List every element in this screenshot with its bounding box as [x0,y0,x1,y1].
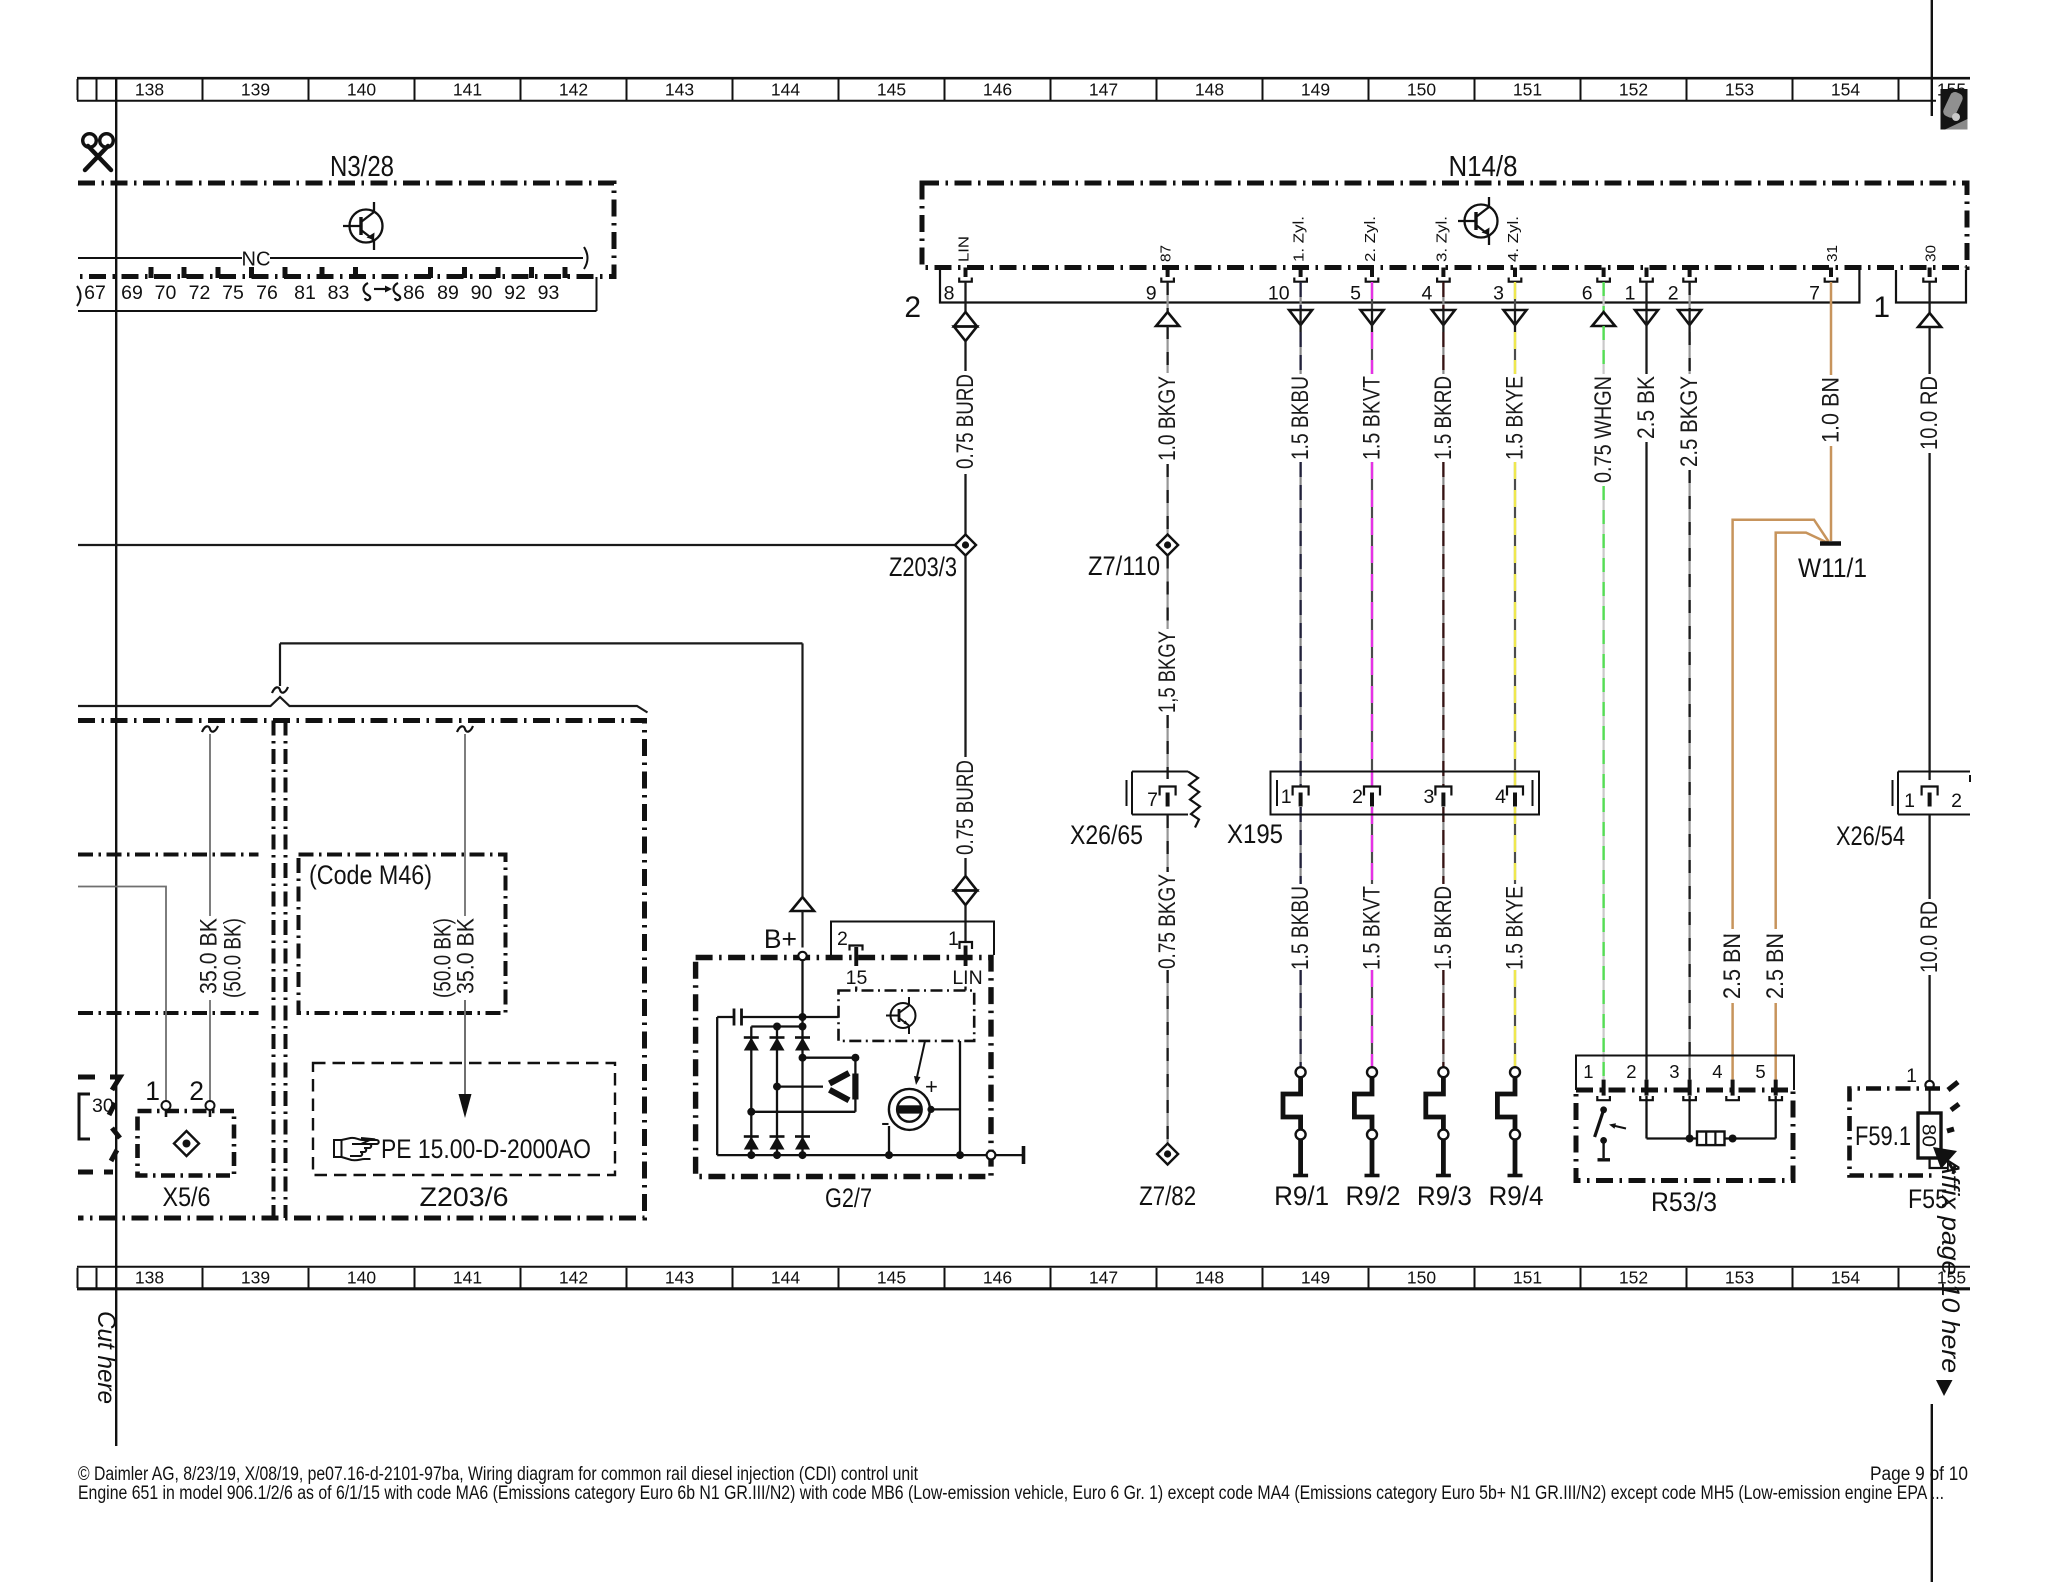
regulator box [839,991,975,1041]
svg-text:139: 139 [241,80,270,100]
wire break squiggle [272,687,288,693]
wire [1514,462,1516,786]
svg-text:147: 147 [1089,80,1118,100]
svg-text:0.75 BURD: 0.75 BURD [952,374,979,469]
transistor in N3/28 [343,202,383,250]
R53/3 pin 2 [1645,1080,1649,1096]
svg-text:30: 30 [1923,245,1940,262]
svg-text:4. Zyl.: 4. Zyl. [1505,216,1522,262]
svg-text:(Code M46): (Code M46) [309,860,432,890]
svg-text:F59.1: F59.1 [1855,1121,1911,1151]
svg-text:(50.0 BK): (50.0 BK) [220,918,247,998]
svg-text:145: 145 [877,1268,906,1288]
LIN wire into regulator [964,987,966,991]
right cut line bottom [1931,1404,1933,1582]
X195 pin 4 [1507,787,1523,796]
svg-text:1.5 BKBU: 1.5 BKBU [1287,886,1314,970]
svg-text:8: 8 [944,283,955,305]
svg-text:1.5 BKRD: 1.5 BKRD [1430,376,1457,460]
svg-text:W11/1: W11/1 [1798,553,1867,583]
arrow down [1504,310,1527,325]
wire 10.0 RD from N14/8 pin 30 [1928,282,1930,315]
svg-text:146: 146 [983,1268,1012,1288]
svg-text:153: 153 [1725,1268,1754,1288]
inner dash-dot box left [78,855,259,1014]
terminal 30 bracket [79,1094,90,1139]
wire B+ drop [801,643,803,896]
N14/8 pin 7 [1829,268,1833,278]
svg-text:141: 141 [453,1268,482,1288]
svg-text:0.75 BKGY: 0.75 BKGY [1154,874,1181,969]
N14/8 pin 1 [1645,268,1649,278]
wire [1371,970,1373,1067]
wire [1299,807,1301,884]
svg-text:1: 1 [1904,790,1915,812]
svg-text:3: 3 [1493,283,1504,305]
svg-text:3: 3 [1424,786,1435,808]
right cut line top [1931,0,1933,116]
svg-text:75: 75 [222,282,244,304]
svg-text:90: 90 [471,282,493,304]
svg-text:2. Zyl.: 2. Zyl. [1362,216,1379,262]
svg-text:1.0 BN: 1.0 BN [1818,377,1845,443]
arrow up on RD wire [1918,313,1941,327]
svg-text:3. Zyl.: 3. Zyl. [1433,216,1450,262]
svg-text:R9/4: R9/4 [1489,1181,1544,1211]
wire [1645,442,1647,1080]
regulator right leg [959,1041,961,1155]
svg-text:146: 146 [983,80,1012,100]
wire [1514,807,1516,884]
wire [1514,332,1516,374]
wire [964,341,966,371]
svg-text:143: 143 [665,80,694,100]
wire 1.5 BKVT from N14/8 [1371,282,1373,310]
N3/28 pin row [78,310,597,312]
svg-text:149: 149 [1301,80,1330,100]
svg-text:86: 86 [403,282,425,304]
connector rail above G2/7 [831,922,994,956]
svg-text:5: 5 [1755,1061,1765,1082]
diode bridge columns [751,1025,802,1027]
wire [964,474,966,535]
svg-text:151: 151 [1513,80,1542,100]
pin 15 [850,946,863,951]
R53/3 pin 5 [1774,1080,1778,1096]
arrow up on BKGY wire [1156,312,1179,326]
top ruler [77,78,1970,101]
wire [1371,462,1373,786]
svg-text:76: 76 [256,282,278,304]
svg-text:5: 5 [1350,283,1361,305]
svg-text:N3/28: N3/28 [330,151,394,183]
svg-text:R9/2: R9/2 [1346,1181,1401,1211]
wire [1442,807,1444,884]
svg-text:3: 3 [1669,1061,1679,1082]
svg-text:149: 149 [1301,1268,1330,1288]
svg-text:150: 150 [1407,80,1436,100]
X26/65 pin 7 [1160,787,1176,796]
svg-text:1.0 BKGY: 1.0 BKGY [1154,376,1181,461]
svg-text:0.75 WHGN: 0.75 WHGN [1590,376,1617,483]
svg-text:R9/3: R9/3 [1417,1181,1472,1211]
transistor in N14/8 [1458,197,1498,245]
X5/6 pins [162,1101,171,1110]
connector X5/6 [138,1111,235,1176]
wire [1928,327,1930,374]
wire [1299,970,1301,1067]
wire [1166,815,1168,872]
B+ wire inside [801,960,803,1027]
wire [1166,970,1168,1144]
shield symbol lower [954,876,977,891]
svg-text:4: 4 [1422,283,1433,305]
wire [1166,464,1168,535]
svg-text:148: 148 [1195,1268,1224,1288]
svg-text:81: 81 [294,282,316,304]
svg-text:0.75 BURD: 0.75 BURD [952,760,979,855]
connector X26/54 [1898,772,1970,815]
node Z7/110 [1157,535,1178,556]
svg-text:1.5 BKVT: 1.5 BKVT [1359,376,1386,460]
wire to G2/7 B+ horizontal [280,642,803,644]
arrow down [1289,310,1312,325]
svg-text:10.0 RD: 10.0 RD [1916,901,1943,973]
svg-text:LIN: LIN [956,236,973,262]
rotor connections [888,1126,890,1155]
N14/8 pin 8 [964,268,968,278]
svg-text:10: 10 [1268,283,1290,305]
wire [1166,715,1168,779]
svg-text:Cut here: Cut here [92,1311,120,1404]
svg-text:2.5 BN: 2.5 BN [1719,933,1746,999]
svg-text:6: 6 [1582,283,1593,305]
svg-text:147: 147 [1089,1268,1118,1288]
arrow up on B+ wire [791,897,814,911]
svg-text:1: 1 [1625,283,1636,305]
svg-text:R53/3: R53/3 [1651,1187,1717,1217]
wires 2.5 BN from R53/3 pins 4,5 to ground [1733,520,1829,1080]
R53/3 pin 3 [1688,1080,1692,1096]
svg-text:Z203/3: Z203/3 [889,552,957,582]
svg-text:1.5 BKBU: 1.5 BKBU [1287,376,1314,460]
svg-text:145: 145 [877,80,906,100]
svg-text:1.5 BKVT: 1.5 BKVT [1359,886,1386,970]
arrow down [1361,310,1384,325]
svg-text:R9/1: R9/1 [1274,1181,1329,1211]
double separator lines [274,721,286,1219]
wire 1.5 BKBU from N14/8 [1299,282,1301,310]
svg-text:1: 1 [1906,1065,1917,1087]
svg-text:NC: NC [242,249,271,271]
bus bracket 1 [1896,270,1966,303]
arrow up on WHGN [1592,312,1615,326]
bus bracket 2 [940,270,1859,303]
svg-text:67: 67 [84,282,106,304]
svg-text:142: 142 [559,80,588,100]
wire [1514,970,1516,1067]
wire [1928,975,1930,1081]
15 wire into regulator [855,987,857,991]
wire [1166,326,1168,373]
svg-text:7: 7 [1809,283,1820,305]
svg-text:1.5 BKRD: 1.5 BKRD [1430,886,1457,970]
wire [1299,462,1301,786]
alternator G2/7 box [696,958,991,1177]
wire [1442,970,1444,1067]
svg-text:70: 70 [155,282,177,304]
svg-text:N14/8: N14/8 [1449,151,1518,183]
svg-text:15: 15 [846,967,868,989]
svg-text:1: 1 [948,928,959,950]
svg-text:1.5 BKYE: 1.5 BKYE [1502,886,1529,970]
wire [1602,326,1604,374]
node Z203/3 [78,544,955,546]
svg-text:Engine 651 in model 906.1/2/6: Engine 651 in model 906.1/2/6 as of 6/1/… [78,1483,1944,1504]
svg-text:1: 1 [1583,1061,1593,1082]
svg-text:152: 152 [1619,1268,1648,1288]
N14/8 pin 9 [1166,268,1170,278]
X195 pin 2 [1364,787,1380,796]
squiggle [457,726,473,732]
svg-text:2: 2 [1668,283,1679,305]
svg-text:2: 2 [189,1076,204,1106]
connector X195 [1271,772,1540,815]
svg-text:2: 2 [1951,790,1962,812]
LIN pin bracket [960,942,973,949]
svg-text:152: 152 [1619,80,1648,100]
svg-text:1: 1 [145,1076,160,1106]
N14/8 pin 5 [1370,268,1374,278]
svg-text:1: 1 [1873,291,1890,324]
arrow down [1432,310,1455,325]
svg-text:9: 9 [1146,283,1157,305]
NC wire [78,257,242,259]
node Z7/82 [1157,1144,1178,1165]
ground W11/1 [1820,541,1841,546]
svg-text:1.5 BKYE: 1.5 BKYE [1502,376,1529,460]
svg-text:Page 9 of 10: Page 9 of 10 [1870,1464,1968,1485]
wire [1688,470,1690,1080]
wire [1602,486,1604,1080]
wire [1830,446,1833,541]
R53/3 internal wires [1645,1096,1647,1139]
wire to X5/6 pin 1 [78,887,166,1102]
capacitor [717,1016,734,1018]
arrow down [1635,310,1658,325]
black photo icon top right [1941,89,1968,130]
svg-text:35.0 BK: 35.0 BK [196,918,223,994]
svg-text:Z7/82: Z7/82 [1139,1181,1196,1211]
svg-text:150: 150 [1407,1268,1436,1288]
svg-text:X26/65: X26/65 [1070,820,1143,850]
svg-text:139: 139 [241,1268,270,1288]
svg-text:83: 83 [328,282,350,304]
glow plug R9/3 [1438,1067,1448,1077]
B+ entry circle [798,952,806,960]
wire [964,858,966,875]
svg-text:140: 140 [347,1268,376,1288]
wire [1442,462,1444,786]
affix arrowhead [1933,1147,1957,1169]
switch actuation arrow [1613,1126,1626,1129]
svg-text:72: 72 [189,282,211,304]
wire 0.75 BURD from N14/8 pin 8 [964,282,966,312]
wire [1371,807,1373,884]
svg-text:141: 141 [453,80,482,100]
svg-text:7: 7 [1147,789,1158,811]
relay R53/3 [1576,1056,1794,1091]
N14/8 pin 30 [1928,268,1932,278]
svg-text:69: 69 [121,282,143,304]
N14/8 pin 2 [1688,268,1692,278]
svg-text:143: 143 [665,1268,694,1288]
svg-text:31: 31 [1824,245,1841,262]
torn edge marks [1947,1082,1959,1131]
wire 1.5 BKYE from N14/8 [1514,282,1516,310]
(Code M46) box [299,855,506,1014]
svg-text:2: 2 [904,291,921,324]
svg-text:142: 142 [559,1268,588,1288]
svg-text:2.5 BKGY: 2.5 BKGY [1676,376,1703,467]
shield symbol on BURD wire [954,312,977,327]
svg-text:144: 144 [771,80,800,100]
arrow from regulator to rotor + [917,1041,925,1077]
N14/8 pin 10 [1299,268,1303,278]
svg-text:+: + [925,1074,938,1099]
N14/8 pin 3 [1513,268,1517,278]
svg-text:93: 93 [538,282,560,304]
svg-text:G2/7: G2/7 [825,1183,872,1213]
rotor [889,1089,930,1130]
left page frame line [115,77,117,1446]
svg-text:151: 151 [1513,1268,1542,1288]
Z203/6 box [313,1063,615,1175]
connector X26/65 [1132,772,1188,815]
svg-text:LIN: LIN [952,967,982,989]
R53/3 switch [1600,1106,1607,1113]
glow plug R9/1 [1296,1067,1306,1077]
svg-text:10.0 RD: 10.0 RD [1916,376,1943,450]
N14/8 pin 4 [1441,268,1445,278]
wire [1166,556,1168,630]
svg-text:B+: B+ [764,924,797,954]
ground bus [717,1154,986,1156]
wire [1928,815,1930,899]
svg-text:138: 138 [135,80,164,100]
svg-text:4: 4 [1495,786,1506,808]
svg-text:© Daimler AG, 8/23/19, X/08/19: © Daimler AG, 8/23/19, X/08/19, pe07.16-… [78,1464,919,1485]
X195 pin 1 [1293,787,1309,796]
glow plug R9/2 [1367,1067,1377,1077]
bottom ruler [77,1267,1970,1289]
svg-text:2.5 BN: 2.5 BN [1762,933,1789,999]
svg-text:154: 154 [1831,80,1860,100]
wire 1.0 BKGY from N14/8 pin 9 [1166,282,1168,312]
svg-text:X26/54: X26/54 [1836,821,1905,851]
svg-text:138: 138 [135,1268,164,1288]
X26/54 pin 1 [1922,787,1938,796]
svg-text:80: 80 [1918,1124,1939,1147]
stator connections [803,1057,856,1059]
R53/3 pin 4 [1731,1080,1735,1096]
svg-text:Z203/6: Z203/6 [420,1182,509,1212]
svg-text:2: 2 [837,928,848,950]
svg-text:F55: F55 [1908,1184,1948,1214]
big component box left [78,721,645,1219]
heater resistor [1697,1132,1725,1146]
svg-text:148: 148 [1195,80,1224,100]
svg-text:153: 153 [1725,80,1754,100]
svg-text:87: 87 [1158,245,1175,262]
X5/6 diamond symbol [174,1131,199,1156]
svg-text:89: 89 [437,282,459,304]
svg-text:X5/6: X5/6 [163,1182,211,1212]
svg-text:PE 15.00-D-2000AO: PE 15.00-D-2000AO [381,1134,591,1164]
svg-text:140: 140 [347,80,376,100]
svg-text:92: 92 [504,282,526,304]
wire 1.5 BKRD from N14/8 [1442,282,1444,310]
svg-text:1: 1 [1281,786,1292,808]
torn box edge marks left [78,1077,120,1172]
svg-text:2: 2 [1352,786,1363,808]
svg-text:2.5 BK: 2.5 BK [1633,376,1660,439]
svg-text:X195: X195 [1227,819,1283,849]
squiggle arrow squiggle [364,283,371,300]
svg-text:2: 2 [1626,1061,1636,1082]
svg-text:1,5 BKGY: 1,5 BKGY [1154,631,1181,713]
N14/8 pin 6 [1602,268,1606,278]
R53/3 pin 1 [1602,1080,1606,1096]
wire 1.0 BN from N14/8 pin 7 [1830,282,1833,375]
wire [1688,332,1690,374]
svg-text:154: 154 [1831,1268,1860,1288]
wire 2.5 BK from N14/8 pin 1 [1645,282,1647,310]
wire 0.75 WHGN from N14/8 pin 6 [1602,282,1604,312]
X195 pin 3 [1435,787,1451,796]
svg-text:4: 4 [1712,1061,1722,1082]
wire [964,556,966,758]
wire [1299,332,1301,374]
glow plug R9/4 [1510,1067,1520,1077]
stator winding triangle [854,1058,856,1112]
svg-text:35.0 BK: 35.0 BK [453,918,480,994]
svg-text:1. Zyl.: 1. Zyl. [1291,216,1308,262]
wire [1442,332,1444,374]
scissors icon [83,134,114,170]
svg-text:Z7/110: Z7/110 [1088,551,1160,581]
pointing hand icon [334,1138,379,1160]
squiggle [202,726,218,732]
transistor in regulator [886,997,916,1034]
affix arrow triangle [1936,1380,1953,1396]
wire [1371,332,1373,374]
horizontal wire with notch [78,697,648,713]
svg-text:144: 144 [771,1268,800,1288]
arrow down [1678,310,1701,325]
wire [1645,332,1647,374]
wire [1928,453,1930,780]
wire [964,905,966,941]
wire 2.5 BKGY from N14/8 pin 2 [1688,282,1690,310]
